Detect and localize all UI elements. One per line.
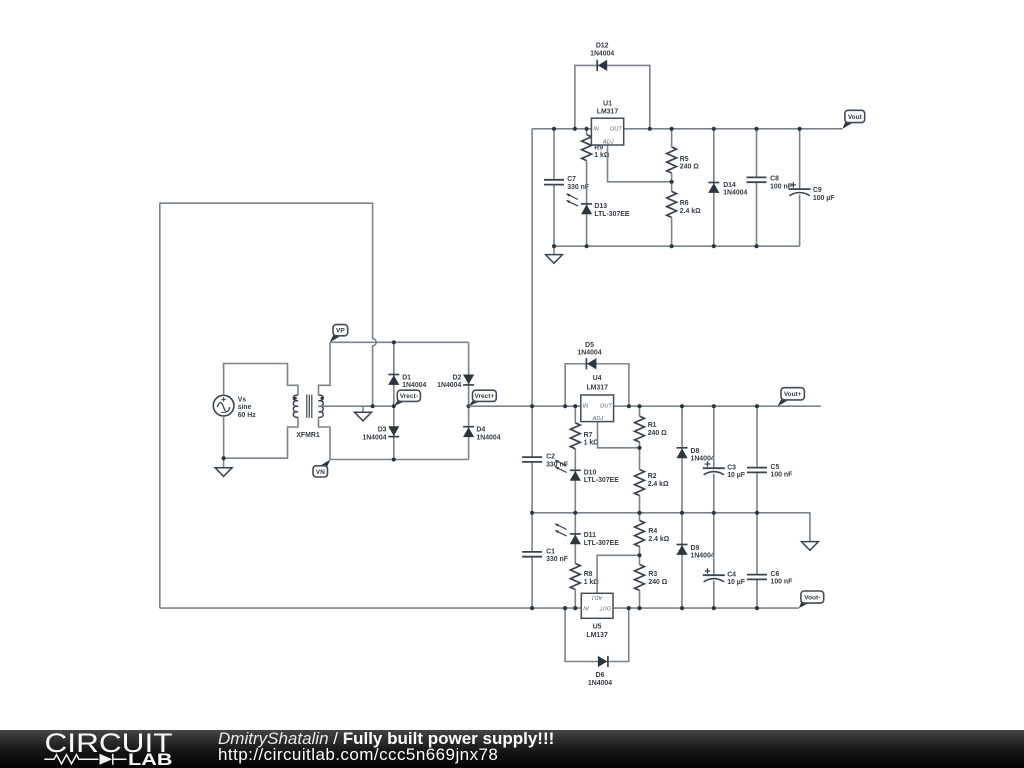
svg-text:1N4004: 1N4004 bbox=[691, 456, 715, 463]
svg-text:10 µF: 10 µF bbox=[727, 579, 745, 586]
svg-text:C9: C9 bbox=[813, 187, 822, 194]
svg-text:IN: IN bbox=[593, 126, 600, 132]
svg-text:1N4004: 1N4004 bbox=[577, 350, 601, 357]
svg-text:Vrect-: Vrect- bbox=[400, 393, 418, 400]
svg-text:D11: D11 bbox=[584, 532, 596, 539]
svg-text:D10: D10 bbox=[584, 469, 597, 476]
svg-text:XFMR1: XFMR1 bbox=[296, 432, 320, 439]
svg-text:C7: C7 bbox=[567, 176, 576, 183]
svg-text:C6: C6 bbox=[771, 571, 780, 578]
svg-text:Vout+: Vout+ bbox=[784, 391, 802, 398]
svg-text:R7: R7 bbox=[584, 432, 593, 439]
svg-text:D12: D12 bbox=[596, 43, 609, 50]
svg-text:1N4004: 1N4004 bbox=[723, 190, 747, 197]
svg-text:D1: D1 bbox=[402, 374, 411, 381]
svg-text:C1: C1 bbox=[546, 548, 555, 555]
svg-text:U1: U1 bbox=[603, 100, 612, 107]
svg-text:100 µF: 100 µF bbox=[813, 195, 835, 202]
svg-text:ADJ: ADJ bbox=[602, 139, 614, 145]
svg-text:100 nF: 100 nF bbox=[771, 472, 793, 479]
svg-text:D8: D8 bbox=[691, 448, 700, 455]
svg-text:R3: R3 bbox=[648, 571, 657, 578]
svg-text:D2: D2 bbox=[452, 374, 461, 381]
svg-text:Vout-: Vout- bbox=[804, 594, 820, 601]
svg-text:LTL-307EE: LTL-307EE bbox=[594, 211, 630, 218]
svg-text:1N4004: 1N4004 bbox=[476, 434, 500, 441]
svg-text:1N4004: 1N4004 bbox=[590, 50, 614, 57]
svg-text:2.4 kΩ: 2.4 kΩ bbox=[648, 481, 669, 488]
svg-text:Vs: Vs bbox=[238, 396, 247, 403]
svg-text:100 nF: 100 nF bbox=[771, 579, 793, 586]
svg-text:LM137: LM137 bbox=[586, 632, 608, 639]
svg-text:R1: R1 bbox=[648, 422, 657, 429]
svg-text:U5: U5 bbox=[593, 623, 602, 630]
svg-text:R5: R5 bbox=[680, 156, 689, 163]
svg-text:330 nF: 330 nF bbox=[567, 184, 589, 191]
svg-text:IN: IN bbox=[583, 404, 590, 410]
svg-text:ADJ: ADJ bbox=[592, 416, 604, 422]
svg-text:240 Ω: 240 Ω bbox=[648, 430, 667, 437]
svg-text:C3: C3 bbox=[727, 464, 736, 471]
svg-text:1N4004: 1N4004 bbox=[691, 553, 715, 560]
svg-text:Vout: Vout bbox=[848, 114, 863, 121]
svg-text:330 nF: 330 nF bbox=[546, 461, 568, 468]
svg-text:R6: R6 bbox=[680, 200, 689, 207]
svg-text:OUT: OUT bbox=[600, 404, 613, 410]
svg-text:U4: U4 bbox=[593, 375, 602, 382]
svg-text:C8: C8 bbox=[770, 176, 779, 183]
svg-text:LTL-307EE: LTL-307EE bbox=[584, 477, 620, 484]
svg-text:sine: sine bbox=[238, 404, 252, 411]
svg-text:1N4004: 1N4004 bbox=[588, 680, 612, 687]
svg-text:330 nF: 330 nF bbox=[546, 556, 568, 563]
svg-text:LM317: LM317 bbox=[597, 108, 619, 115]
svg-text:Vrect+: Vrect+ bbox=[475, 393, 495, 400]
svg-text:ADJ: ADJ bbox=[592, 594, 603, 600]
svg-text:D4: D4 bbox=[476, 427, 485, 434]
svg-text:1N4004: 1N4004 bbox=[437, 382, 461, 389]
svg-text:2.4 kΩ: 2.4 kΩ bbox=[680, 208, 701, 215]
svg-text:240 Ω: 240 Ω bbox=[648, 579, 667, 586]
svg-text:R8: R8 bbox=[584, 571, 593, 578]
svg-text:D14: D14 bbox=[723, 182, 736, 189]
svg-text:D3: D3 bbox=[378, 427, 387, 434]
svg-text:D13: D13 bbox=[594, 203, 607, 210]
svg-text:R2: R2 bbox=[648, 473, 657, 480]
svg-text:C2: C2 bbox=[546, 454, 555, 461]
svg-text:D6: D6 bbox=[596, 672, 605, 679]
svg-text:1N4004: 1N4004 bbox=[402, 382, 426, 389]
svg-text:OUT: OUT bbox=[599, 604, 611, 610]
svg-text:VN: VN bbox=[316, 469, 325, 476]
svg-text:VP: VP bbox=[336, 328, 345, 335]
svg-text:C5: C5 bbox=[771, 464, 780, 471]
svg-text:240 Ω: 240 Ω bbox=[680, 164, 699, 171]
svg-text:D9: D9 bbox=[691, 545, 700, 552]
svg-text:LTL-307EE: LTL-307EE bbox=[584, 540, 620, 547]
svg-text:D5: D5 bbox=[585, 342, 594, 349]
svg-text:C4: C4 bbox=[727, 571, 736, 578]
svg-text:60 Hz: 60 Hz bbox=[238, 412, 257, 419]
svg-text:2.4 kΩ: 2.4 kΩ bbox=[648, 536, 669, 543]
svg-text:LAB: LAB bbox=[128, 750, 173, 768]
svg-text:10 µF: 10 µF bbox=[727, 472, 745, 479]
svg-text:1N4004: 1N4004 bbox=[362, 434, 386, 441]
svg-text:LM317: LM317 bbox=[586, 385, 608, 392]
svg-text:OUT: OUT bbox=[610, 126, 623, 132]
svg-text:IN: IN bbox=[583, 604, 588, 610]
svg-text:R4: R4 bbox=[648, 528, 657, 535]
